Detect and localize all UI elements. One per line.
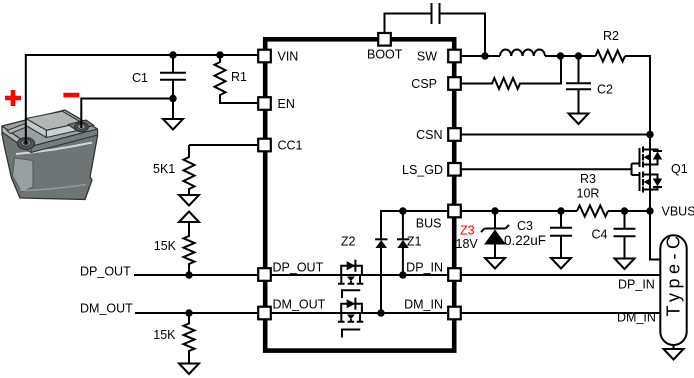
node C4 junction — [621, 207, 628, 214]
svg-text:Z3: Z3 — [460, 224, 475, 238]
node 15K-DM_OUT junction — [185, 309, 192, 316]
svg-text:10R: 10R — [577, 187, 600, 201]
wire VBUS to Type-C — [650, 211, 660, 260]
label minus — [63, 93, 79, 98]
label plus — [5, 90, 21, 106]
svg-text:BUS: BUS — [416, 217, 442, 231]
node Z2-DM junction — [377, 309, 384, 316]
capacitor bootstrap — [432, 3, 440, 24]
battery — [2, 110, 98, 200]
resistor R3 — [577, 206, 608, 217]
diode Z1 — [397, 239, 409, 248]
svg-text:Q1: Q1 — [671, 162, 688, 176]
svg-text:DP_IN: DP_IN — [406, 261, 443, 275]
IC body U1 — [265, 39, 454, 350]
svg-text:Type-C: Type-C — [664, 231, 684, 316]
wire CC1 — [189, 144, 258, 146]
wire Z1 branch — [402, 211, 404, 275]
resistor 15K lower — [184, 313, 195, 364]
pin DM_IN — [448, 307, 461, 320]
pin CC1 — [258, 139, 271, 152]
diode Z2 — [375, 239, 387, 248]
transistor Q1 — [632, 147, 663, 212]
wire BOOT loop — [385, 14, 486, 57]
node C3 junction — [557, 207, 564, 214]
wire DM_IN right — [460, 312, 660, 314]
node Z3 junction — [491, 207, 498, 214]
resistor R2 — [596, 51, 626, 62]
ground — [179, 364, 199, 375]
svg-text:R3: R3 — [580, 172, 596, 186]
resistor 15K upper — [184, 222, 195, 275]
svg-text:DM_IN: DM_IN — [617, 311, 656, 325]
svg-text:CSP: CSP — [411, 77, 437, 91]
pin LS_GD — [448, 163, 461, 176]
pin DM_OUT — [258, 307, 271, 320]
svg-text:R1: R1 — [231, 70, 247, 84]
svg-text:18V: 18V — [456, 237, 479, 251]
svg-text:SW: SW — [417, 50, 437, 64]
svg-text:DP_OUT: DP_OUT — [273, 261, 324, 275]
pin DP_IN — [448, 268, 461, 281]
wire LS_GD gate lead — [460, 168, 632, 170]
svg-text:BOOT: BOOT — [367, 48, 403, 62]
node Z1-DP junction — [399, 271, 406, 278]
svg-text:VBUS: VBUS — [662, 205, 694, 219]
transistor DP pass FET — [338, 260, 363, 298]
capacitor C1 — [160, 55, 186, 119]
svg-text:DP_OUT: DP_OUT — [80, 265, 131, 279]
ground — [163, 119, 183, 130]
ground — [179, 195, 199, 206]
svg-text:15K: 15K — [153, 328, 176, 342]
connector Type-C — [660, 235, 686, 345]
node CSN-Q1 junction — [646, 131, 653, 138]
svg-text:C2: C2 — [597, 83, 613, 97]
svg-text:0.22uF: 0.22uF — [504, 233, 546, 248]
svg-text:DM_OUT: DM_OUT — [80, 302, 133, 316]
svg-text:15K: 15K — [154, 239, 177, 253]
node 15K-DP_OUT junction — [185, 271, 192, 278]
capacitor C4 — [614, 211, 636, 259]
ground — [664, 345, 684, 360]
svg-text:CSN: CSN — [416, 128, 442, 142]
node L1-CSP junction — [557, 52, 564, 59]
svg-text:C1: C1 — [132, 71, 148, 85]
svg-text:CC1: CC1 — [278, 139, 303, 153]
pin SW — [448, 50, 461, 63]
resistor 5K1 — [184, 145, 195, 195]
node VIN-R1 junction — [216, 51, 223, 58]
pin VIN — [258, 50, 271, 63]
inductor L1 — [500, 49, 545, 56]
node C2 junction — [575, 52, 582, 59]
svg-text:DM_IN: DM_IN — [404, 298, 443, 312]
capacitor C2 — [566, 56, 591, 114]
node SW-boot junction — [481, 52, 488, 59]
pin CSP — [448, 77, 461, 90]
wire R2 to Q1 drain — [625, 56, 650, 150]
node VBUS junction — [646, 207, 653, 214]
wire DP_OUT — [134, 274, 259, 276]
zener Z3 — [481, 211, 509, 269]
pin BUS — [448, 205, 461, 218]
resistor CSP sense — [460, 56, 561, 89]
wire DP_IN right — [460, 274, 660, 276]
pin EN — [258, 97, 271, 110]
svg-text:5K1: 5K1 — [153, 162, 175, 176]
wire DM_OUT — [135, 312, 259, 314]
svg-text:LS_GD: LS_GD — [402, 163, 443, 177]
svg-text:DP_IN: DP_IN — [618, 278, 655, 292]
svg-text:Z1: Z1 — [407, 235, 422, 249]
ground — [569, 114, 589, 125]
ground inverted — [179, 212, 199, 223]
pin BOOT — [378, 33, 391, 46]
svg-text:C3: C3 — [517, 219, 533, 233]
ground — [615, 259, 635, 270]
svg-text:VIN: VIN — [278, 50, 299, 64]
pin DP_OUT — [258, 268, 271, 281]
wire L1 to R2 — [545, 55, 596, 57]
wire battery plus to VIN — [26, 55, 258, 144]
svg-text:Z2: Z2 — [341, 235, 356, 249]
resistor R1 — [215, 55, 259, 103]
wire BUS to VBUS — [460, 210, 650, 212]
node BUS-Z1 junction — [399, 207, 406, 214]
wire BUS internal — [381, 211, 449, 313]
ground — [551, 258, 571, 269]
node VIN-C1 junction — [169, 51, 176, 58]
capacitor C3 — [550, 211, 572, 258]
node C1-minus junction — [169, 95, 176, 102]
wire DM internal — [271, 312, 448, 314]
svg-text:EN: EN — [278, 97, 295, 111]
svg-text:C4: C4 — [592, 228, 608, 242]
wire SW — [460, 55, 500, 57]
wire battery minus to C1 bottom — [81, 99, 173, 129]
wire DP internal — [271, 274, 448, 276]
transistor DM pass FET — [338, 298, 363, 338]
svg-text:DM_OUT: DM_OUT — [273, 298, 326, 312]
wire CSN — [460, 134, 650, 136]
svg-text:R2: R2 — [603, 29, 619, 43]
pin CSN — [448, 128, 461, 141]
